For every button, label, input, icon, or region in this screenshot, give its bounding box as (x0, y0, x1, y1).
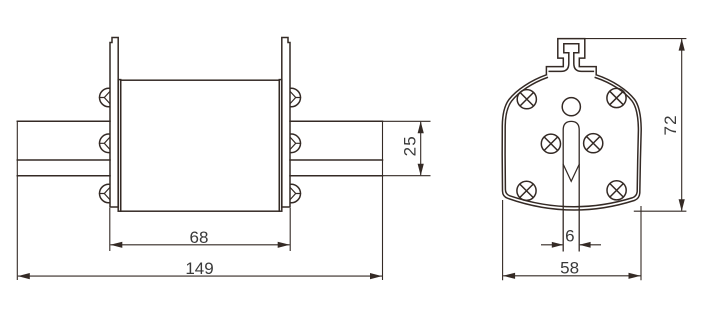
screws with cross marks (517, 88, 626, 200)
dimension 25 line (420, 122, 422, 175)
end cap strip left (118, 80, 121, 212)
dimension 25 extension lines (383, 121, 431, 175)
end cap strip right (279, 80, 282, 212)
screw middle-right (584, 134, 603, 153)
dimension 72 line (681, 39, 683, 211)
arrowheads 68 (110, 242, 122, 248)
screw head side left top (100, 88, 119, 107)
fuse grip lug inner contour (564, 44, 579, 53)
svg-text:6: 6 (565, 227, 574, 246)
screw head side right bottom (282, 184, 301, 203)
end plate right (with top tab) (282, 38, 290, 208)
dimension 58 line (503, 275, 640, 277)
fuse front body inner outline (505, 78, 638, 207)
screw bottom-right (607, 181, 626, 200)
fuse front body outer outline (502, 75, 641, 210)
svg-text:72: 72 (661, 114, 680, 135)
screw head side right middle (282, 134, 301, 153)
grip stem flare left (549, 53, 569, 72)
fuse body (121, 80, 280, 211)
fuse grip lug outer contour (546, 39, 596, 75)
dimension 68 extension lines (110, 208, 290, 251)
arrowheads 6 (552, 242, 563, 248)
grip stem flare right (574, 53, 594, 72)
indicator circle (562, 98, 580, 116)
svg-text:149: 149 (185, 259, 213, 278)
screw top-left (517, 90, 536, 109)
svg-text:68: 68 (190, 228, 209, 247)
screw top-right (607, 88, 626, 107)
screw head side right top (282, 88, 301, 107)
dimension 149 extension lines (17, 121, 382, 280)
blade terminal left (17, 121, 110, 175)
blade terminal right (290, 121, 383, 175)
end plate left (with top tab) (110, 38, 118, 208)
screw bottom-left (517, 181, 536, 200)
screw head side left bottom (100, 184, 119, 203)
dimension 6 stubs (541, 244, 601, 246)
screw middle-left (541, 134, 560, 153)
svg-text:25: 25 (401, 135, 420, 156)
blade slot (563, 121, 579, 250)
dimension 68 line (110, 244, 289, 246)
arrowheads 25 (418, 121, 424, 133)
svg-text:58: 58 (560, 258, 579, 277)
screw head side left middle (100, 134, 119, 153)
dimension 58 extension lines (503, 200, 641, 280)
arrowheads 149 (18, 273, 30, 279)
dimension 149 line (18, 275, 382, 277)
arrowheads 58 (503, 273, 515, 279)
blade slot notch (563, 164, 579, 181)
arrowheads 72 (679, 39, 685, 51)
dimension 72 extension lines (585, 39, 687, 212)
